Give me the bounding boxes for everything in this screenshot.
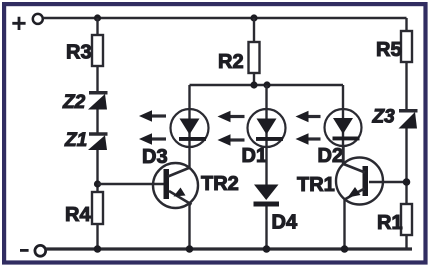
wire Z2 to Z1 bbox=[96, 110, 98, 135]
transistor TR2 bbox=[153, 163, 198, 208]
svg-text:R4: R4 bbox=[65, 204, 91, 226]
transistor TR1 bbox=[336, 158, 383, 205]
arrow D1 lower bbox=[218, 134, 245, 145]
wire R3 to Z2 bbox=[96, 66, 98, 91]
svg-text:R1: R1 bbox=[377, 212, 403, 234]
svg-text:Z1: Z1 bbox=[64, 130, 87, 151]
svg-text:D4: D4 bbox=[272, 212, 298, 234]
wire R1 to rail bbox=[405, 235, 407, 249]
node TR2 emitter / bottom rail bbox=[186, 245, 194, 253]
svg-text:TR1: TR1 bbox=[297, 174, 335, 196]
resistor R1 bbox=[401, 204, 412, 235]
zener Z2 bbox=[88, 93, 108, 110]
svg-text:R2: R2 bbox=[218, 51, 244, 73]
resistor R3 bbox=[92, 35, 103, 66]
svg-text:D2: D2 bbox=[318, 145, 344, 167]
arrow D3 lower bbox=[139, 133, 166, 144]
svg-text:D1: D1 bbox=[242, 145, 268, 167]
svg-text:R5: R5 bbox=[376, 39, 402, 61]
wire bus to D3 bbox=[188, 85, 190, 110]
resistor R4 bbox=[92, 192, 103, 224]
node bus / D1 bbox=[263, 81, 270, 88]
resistor R5 bbox=[401, 31, 412, 62]
node Z1 / R4 / TR2 base bbox=[94, 180, 101, 187]
zener Z3 bbox=[399, 111, 418, 129]
wire D2 to TR1 collector bbox=[342, 146, 344, 164]
wire Z3 to node bbox=[405, 129, 407, 205]
LED D2 bbox=[325, 109, 362, 146]
resistor R2 bbox=[249, 42, 260, 73]
svg-text:TR2: TR2 bbox=[201, 173, 239, 195]
wire LED bus bbox=[190, 84, 344, 86]
wire R3 top lead bbox=[96, 18, 98, 35]
arrow D1 upper bbox=[218, 111, 245, 122]
LED D3 bbox=[171, 109, 209, 147]
negative terminal bbox=[20, 245, 46, 256]
wire bus to D2 bbox=[342, 85, 344, 110]
node R4 / bottom rail bbox=[94, 245, 102, 253]
arrow D2 upper bbox=[296, 111, 321, 122]
wire D3 to TR2 collector bbox=[188, 147, 190, 168]
wire TR1 emitter to rail bbox=[343, 199, 345, 250]
wire R5 top lead bbox=[405, 18, 407, 31]
wire TR1 base bbox=[369, 181, 407, 183]
svg-text:Z3: Z3 bbox=[372, 107, 396, 128]
wire TR1 collector bbox=[342, 146, 344, 164]
node top rail / R2 bbox=[250, 14, 257, 21]
wire TR2 emitter to rail bbox=[188, 204, 190, 250]
node Z3 / R1 / TR1 base bbox=[403, 178, 411, 186]
node bus / R2 bbox=[250, 81, 257, 88]
svg-text:D3: D3 bbox=[142, 146, 168, 168]
wire R2 bottom lead bbox=[253, 73, 255, 85]
diode D4 bbox=[254, 185, 280, 207]
arrow D2 lower bbox=[296, 133, 321, 144]
wire TR2 base bbox=[98, 183, 165, 185]
wire bus to D1 bbox=[265, 85, 267, 110]
LED D1 bbox=[248, 109, 286, 147]
node top rail / R3 bbox=[94, 14, 101, 21]
node D4 / bottom rail bbox=[263, 245, 271, 253]
wire Z1 to node bbox=[96, 150, 98, 192]
wire D1 to D4 bbox=[265, 147, 267, 185]
wire R4 to rail bbox=[96, 224, 98, 249]
wire top rail bbox=[43, 17, 406, 19]
wire R5 to Z3 bbox=[405, 62, 407, 109]
wire bottom rail bbox=[46, 247, 412, 250]
svg-text:R3: R3 bbox=[66, 42, 92, 64]
zener Z1 bbox=[88, 134, 108, 150]
node TR1 emitter / bottom rail bbox=[341, 245, 349, 253]
positive terminal bbox=[12, 14, 43, 30]
arrow D3 upper bbox=[139, 110, 166, 121]
wire D4 to rail bbox=[265, 207, 267, 250]
wire R2 top lead bbox=[253, 18, 255, 42]
svg-text:Z2: Z2 bbox=[62, 92, 86, 113]
